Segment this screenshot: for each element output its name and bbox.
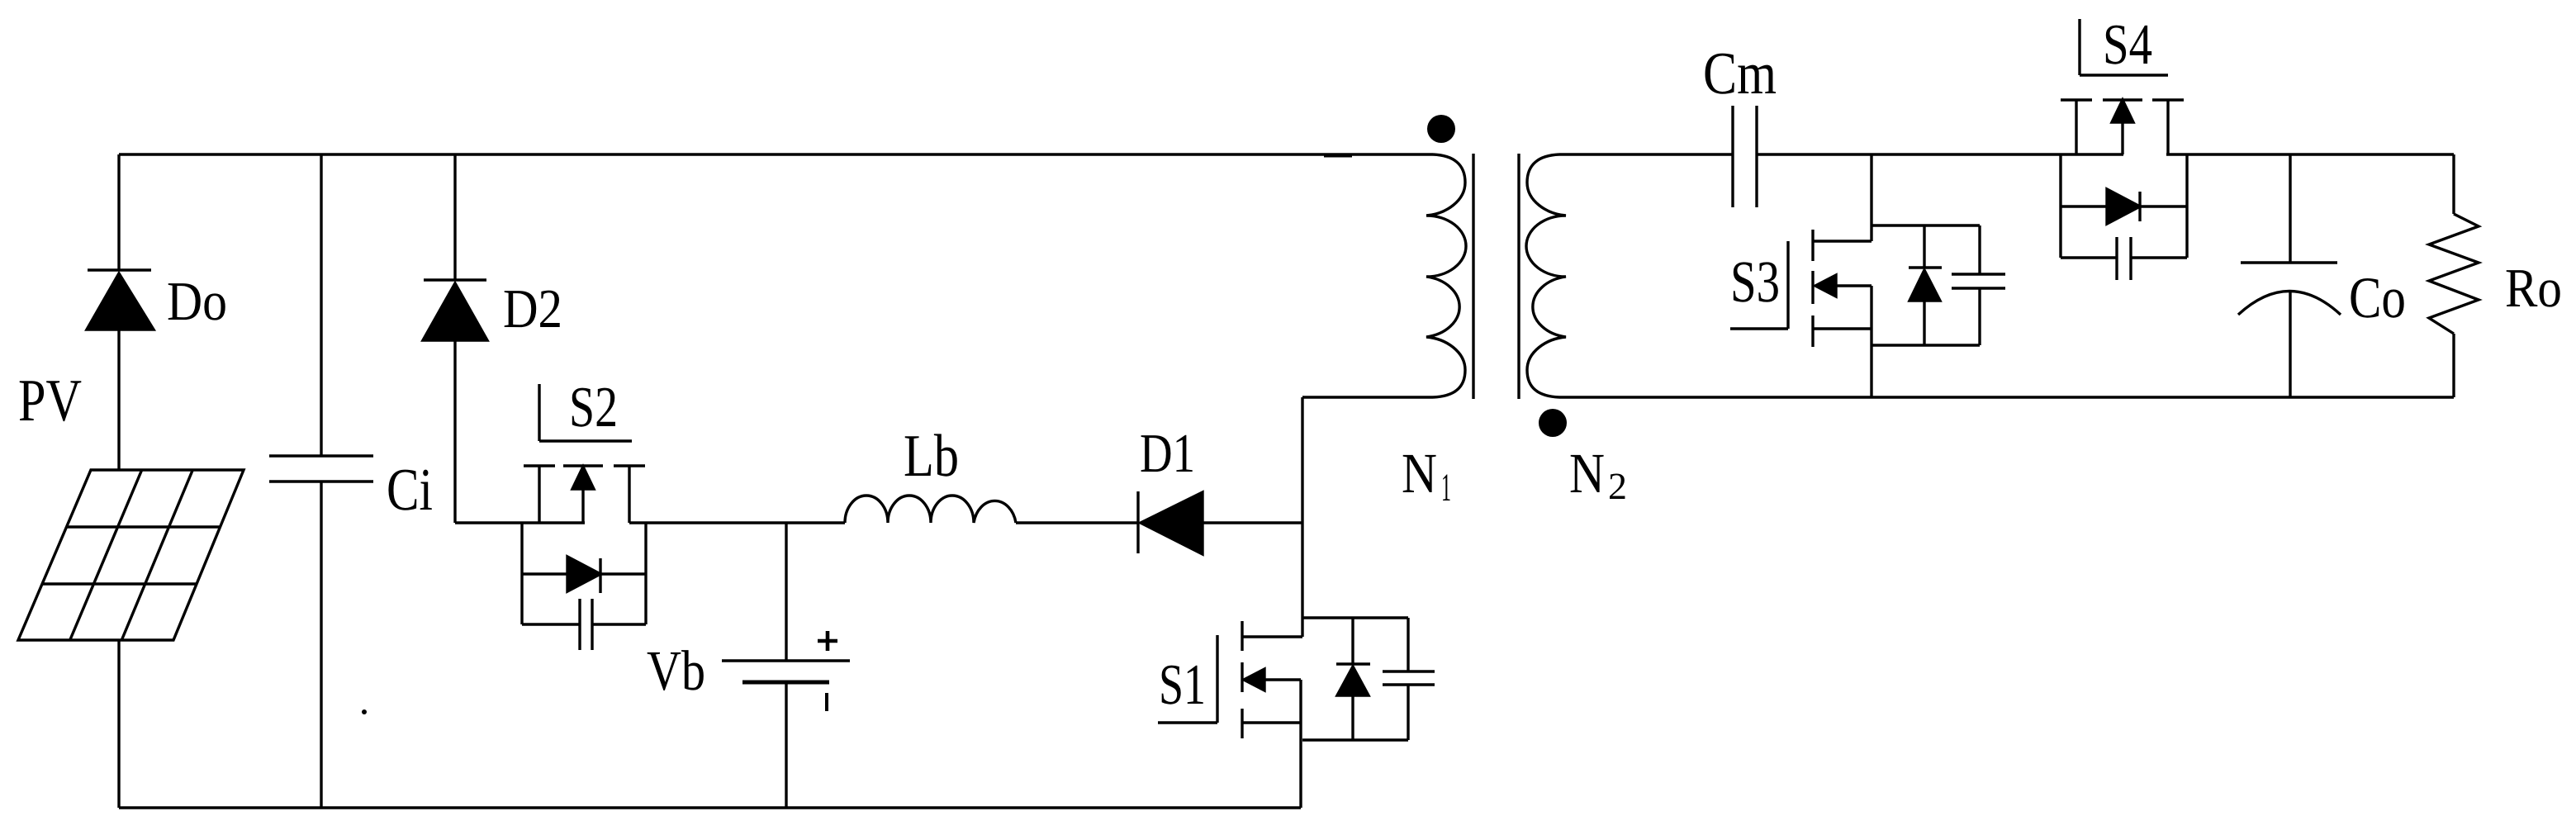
svg-text:N: N	[1402, 442, 1437, 505]
svg-text:Cm: Cm	[1703, 40, 1777, 107]
transformer secondary winding	[1526, 154, 1566, 397]
diode D2	[423, 154, 487, 523]
wire S2 left	[455, 521, 585, 524]
svg-text:Do: Do	[167, 271, 227, 332]
transistor S4	[2061, 19, 2184, 154]
wire primary winding bottom	[1302, 396, 1433, 398]
Vb minus sign	[825, 693, 828, 711]
svg-text:S2: S2	[569, 376, 618, 439]
svg-text:Ci: Ci	[387, 456, 433, 523]
svg-text:S4: S4	[2103, 13, 2152, 77]
wire left rail upper	[117, 154, 120, 270]
S4 body diode and capacitor	[2061, 154, 2187, 280]
transformer primary winding	[1426, 154, 1466, 397]
svg-text:Co: Co	[2349, 266, 2406, 330]
svg-text:S1: S1	[1159, 653, 1206, 717]
capacitor Ci	[269, 154, 373, 808]
svg-text:PV: PV	[18, 367, 82, 434]
battery Vb	[722, 523, 850, 808]
transformer core	[1473, 154, 1519, 399]
svg-text:Lb: Lb	[904, 422, 959, 489]
wire secondary top left	[1559, 153, 1733, 155]
capacitor Cm	[1733, 106, 1757, 207]
svg-text:Ro: Ro	[2505, 258, 2562, 319]
transistor S2	[524, 384, 645, 523]
svg-text:D1: D1	[1140, 423, 1195, 484]
wire top rail (primary side)	[119, 153, 1433, 155]
wire Lb to D1	[1016, 521, 1137, 524]
capacitor Co	[2238, 154, 2341, 397]
wire overlap artifact on top rail	[1324, 155, 1352, 158]
wire left rail lower	[117, 640, 120, 808]
wire S3 branch	[1870, 154, 1872, 241]
svg-text:1: 1	[1441, 466, 1451, 510]
Vb plus sign	[818, 631, 837, 651]
wire bottom rail (primary side)	[119, 806, 1301, 809]
diode Do	[87, 270, 154, 471]
transformer dot primary	[1427, 115, 1455, 143]
S1 body diode and capacitor	[1302, 618, 1435, 740]
diode D1	[1138, 491, 1302, 554]
transistor S3	[1730, 230, 1872, 397]
wire secondary top mid	[1757, 153, 2123, 155]
svg-text:D2: D2	[503, 278, 562, 339]
wire secondary top right	[2166, 153, 2454, 155]
inductor Lb	[845, 496, 1016, 523]
wire S2 right	[629, 521, 845, 524]
wire secondary bottom rail	[1559, 396, 2454, 398]
S2 body diode and capacitor	[522, 523, 646, 650]
svg-text:Vb: Vb	[647, 639, 705, 702]
transistor S1	[1158, 621, 1302, 808]
svg-text:2: 2	[1608, 465, 1627, 507]
transformer dot secondary	[1539, 409, 1567, 437]
resistor Ro	[2429, 154, 2479, 397]
svg-text:N: N	[1569, 442, 1605, 505]
S3 body diode and capacitor	[1872, 225, 2005, 345]
stray dot	[362, 709, 367, 714]
svg-text:S3: S3	[1730, 249, 1780, 315]
PV panel	[18, 470, 244, 640]
wire primary node vertical	[1301, 397, 1303, 637]
